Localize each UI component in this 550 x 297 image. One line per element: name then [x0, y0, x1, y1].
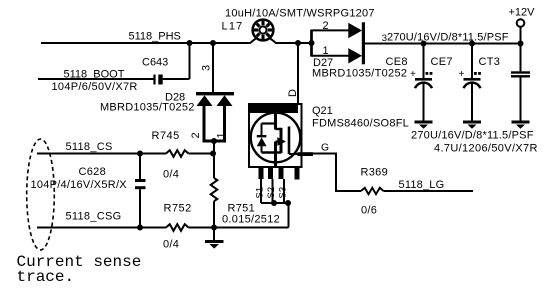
svg-text:FDMS8460/SO8FL: FDMS8460/SO8FL	[312, 118, 409, 130]
svg-text:0/6: 0/6	[361, 205, 377, 217]
svg-text:104P/6/50V/X7R: 104P/6/50V/X7R	[52, 81, 138, 93]
svg-text:4.7U/1206/50V/X7R: 4.7U/1206/50V/X7R	[434, 143, 538, 155]
svg-text:270U/16V/D/8*11.5/PSF: 270U/16V/D/8*11.5/PSF	[387, 32, 509, 44]
svg-text:0/4: 0/4	[163, 169, 179, 181]
svg-text:0.015/2512: 0.015/2512	[222, 214, 280, 226]
svg-text:0/4: 0/4	[163, 239, 179, 251]
svg-text:10uH/10A/SMT/WSRPG1207: 10uH/10A/SMT/WSRPG1207	[225, 8, 375, 20]
svg-text:2: 2	[190, 132, 202, 138]
svg-text:C643: C643	[142, 56, 168, 68]
svg-text:+: +	[459, 69, 465, 80]
svg-text:+12V: +12V	[509, 7, 536, 19]
svg-text:L17: L17	[222, 20, 244, 32]
svg-text:C628: C628	[79, 166, 107, 178]
svg-text:5118_LG: 5118_LG	[399, 179, 445, 191]
svg-text:270U/16V/D/8*11.5/PSF: 270U/16V/D/8*11.5/PSF	[411, 130, 534, 142]
svg-text:5118_CSG: 5118_CSG	[66, 211, 122, 223]
svg-text:2: 2	[323, 20, 329, 32]
svg-text:D: D	[287, 89, 299, 97]
svg-text:Q21: Q21	[312, 105, 333, 117]
svg-text:5118_CS: 5118_CS	[66, 141, 113, 153]
svg-text:MBRD1035/T0252: MBRD1035/T0252	[312, 67, 407, 79]
svg-text:CT3: CT3	[479, 56, 501, 68]
svg-text:5118_BOOT: 5118_BOOT	[64, 68, 125, 80]
svg-text:MBRD1035/T0252: MBRD1035/T0252	[100, 101, 195, 113]
svg-text:G: G	[321, 143, 329, 154]
svg-text:S3: S3	[278, 187, 289, 199]
svg-text:R745: R745	[152, 130, 180, 142]
svg-text:104P/4/16V/X5R/X: 104P/4/16V/X5R/X	[31, 179, 128, 191]
svg-text:3: 3	[201, 65, 213, 71]
svg-text:CE7: CE7	[431, 56, 453, 68]
svg-text:R752: R752	[164, 203, 192, 215]
svg-text:3: 3	[382, 33, 387, 44]
svg-text:S2: S2	[266, 187, 277, 199]
svg-text:+: +	[410, 69, 416, 80]
svg-text:trace.: trace.	[17, 268, 75, 286]
svg-text:1: 1	[323, 45, 329, 57]
svg-text:1: 1	[216, 132, 228, 138]
svg-text:CE8: CE8	[386, 56, 408, 68]
svg-text:5118_PHS: 5118_PHS	[129, 30, 181, 42]
svg-text:S1: S1	[255, 187, 266, 199]
svg-text:R369: R369	[361, 167, 389, 179]
